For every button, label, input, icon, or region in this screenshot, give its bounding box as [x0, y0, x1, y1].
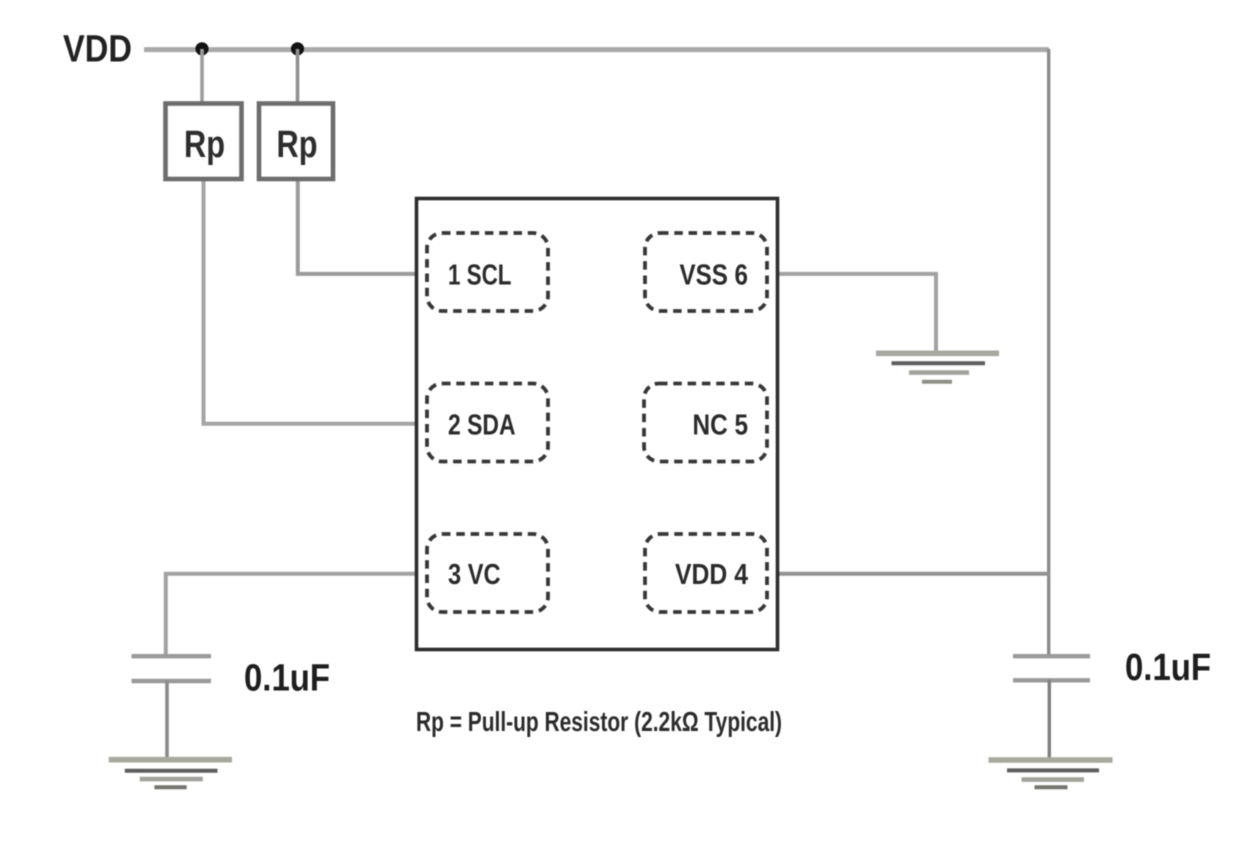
ground (C1): [109, 760, 232, 788]
svg-text:1 SCL: 1 SCL: [448, 260, 512, 292]
wire C2 to ground: [1048, 680, 1051, 759]
wire pin 6 VSS to ground: [768, 274, 936, 352]
svg-text:VSS 6: VSS 6: [680, 260, 749, 292]
resistor Rp1: [166, 104, 242, 180]
svg-text:Rp = Pull-up Resistor (2.2kΩ T: Rp = Pull-up Resistor (2.2kΩ Typical): [416, 706, 782, 737]
resistor Rp2: [259, 104, 333, 180]
ground (C2): [989, 760, 1113, 787]
pin 1 SCL: [427, 233, 548, 311]
wire VDD top rail: [144, 47, 1049, 52]
junction dot 2: [291, 42, 304, 55]
capacitor C1 0.1uF (left): [132, 656, 212, 681]
pin 2 SDA: [427, 384, 548, 462]
wire C1 to ground: [165, 681, 169, 759]
svg-text:3 VC: 3 VC: [448, 559, 501, 591]
wire Rp2 to pin 1 SCL: [298, 181, 427, 274]
wire pin 4 VDD to right rail: [768, 572, 1049, 576]
wire Rp1 to pin 2 SDA: [204, 181, 428, 424]
ground (VSS pin): [876, 353, 999, 382]
junction dot 1: [195, 42, 208, 55]
svg-text:Rp: Rp: [277, 124, 318, 166]
pin 6 VSS: [645, 233, 767, 311]
svg-text:0.1uF: 0.1uF: [244, 658, 330, 700]
svg-text:2 SDA: 2 SDA: [448, 410, 516, 442]
svg-text:NC 5: NC 5: [693, 410, 749, 442]
svg-text:VDD: VDD: [63, 29, 132, 71]
svg-text:VDD 4: VDD 4: [675, 559, 748, 591]
IC U1 body: [417, 199, 778, 650]
pin 3 VC: [427, 534, 548, 612]
capacitor C2 0.1uF (right): [1013, 656, 1090, 680]
wire pin 3 VC to C1: [166, 574, 427, 656]
pin 4 VDD: [645, 534, 767, 612]
wire dot1 to Rp1: [200, 49, 204, 102]
svg-text:0.1uF: 0.1uF: [1125, 647, 1211, 689]
wire VDD right rail: [1047, 49, 1050, 656]
svg-text:Rp: Rp: [184, 124, 225, 166]
wire dot2 to Rp2: [296, 49, 300, 102]
pin 5 NC: [644, 384, 767, 462]
